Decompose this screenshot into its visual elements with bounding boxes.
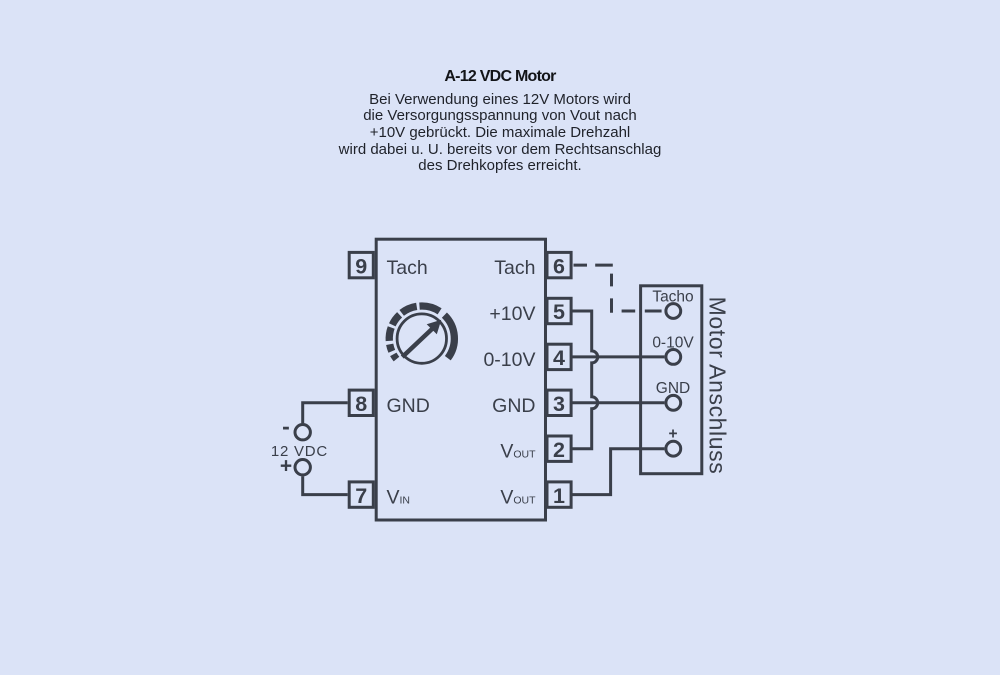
svg-text:9: 9 [355,254,367,278]
GND terminal circle [666,395,681,410]
svg-text:+: + [668,425,677,442]
svg-text:6: 6 [553,254,565,278]
wire pin5 down to pin2 (bridge +10V to Vout) with hops [573,311,598,449]
svg-text:VOUT: VOUT [500,441,536,463]
battery minus terminal circle [295,425,310,440]
svg-text:1: 1 [553,484,565,508]
pin 6 box [547,252,571,277]
svg-text:Tacho: Tacho [652,289,693,306]
svg-text:GND: GND [492,395,535,417]
svg-text:GND: GND [656,380,690,397]
pin 1 box [547,482,571,507]
wire plus terminal to pin7 [303,476,348,494]
title [0,68,1000,86]
svg-text:VIN: VIN [387,487,411,509]
wire pin1 to plus terminal [573,449,665,495]
wire pin3 to GND terminal [573,401,665,404]
svg-text:0-10V: 0-10V [483,349,535,371]
pin 5 box [547,298,571,323]
svg-text:GND: GND [387,395,430,417]
pin 2 box [547,436,571,461]
plus terminal circle [666,441,681,456]
dashed wire pin6 to Tacho terminal [574,265,662,313]
svg-text:3: 3 [553,392,565,416]
svg-text:+10V: +10V [489,303,535,325]
svg-text:VOUT: VOUT [500,487,536,509]
0-10V terminal circle [666,350,681,365]
gauge needle [402,320,441,357]
Tacho terminal circle [666,304,681,319]
pin 4 box [547,344,571,369]
pin 7 box [349,482,373,507]
gauge dashed arc [389,306,454,359]
svg-text:7: 7 [355,484,367,508]
controller main box U1 [376,239,545,520]
svg-text:Tach: Tach [494,257,535,279]
description paragraph [0,92,1000,176]
svg-text:5: 5 [553,300,565,324]
svg-text:-: - [282,413,290,439]
svg-text:0-10V: 0-10V [652,335,694,352]
gauge dial circle [397,314,446,363]
pin 8 box [349,390,373,415]
pin 3 box [547,390,571,415]
svg-text:8: 8 [355,392,367,416]
battery plus terminal circle [295,460,310,475]
svg-text:4: 4 [553,346,565,370]
wire pin8 to minus terminal [303,403,348,423]
pin 9 box [349,252,373,277]
svg-text:Motor Anschluss: Motor Anschluss [705,297,731,475]
wire pin4 to 0-10V terminal [573,355,665,358]
motor connector box [641,286,702,474]
svg-text:Tach: Tach [387,257,428,279]
svg-text:+: + [280,455,292,478]
svg-text:2: 2 [553,438,565,462]
